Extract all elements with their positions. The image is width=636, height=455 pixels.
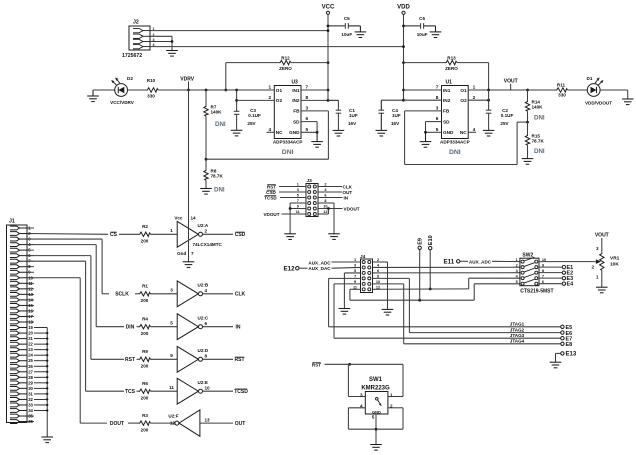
resistor R8 78.7K [205, 159, 207, 169]
svg-text:E8: E8 [566, 342, 573, 348]
svg-text:U2:C: U2:C [198, 316, 209, 321]
junction O1-C2 [487, 89, 490, 92]
svg-text:7: 7 [306, 85, 309, 90]
wire TCS to R6 [137, 390, 139, 392]
svg-text:4: 4 [205, 288, 208, 293]
svg-text:19: 19 [28, 325, 33, 330]
svg-text:4: 4 [268, 127, 271, 132]
svg-text:1: 1 [390, 392, 393, 397]
svg-text:23: 23 [28, 347, 33, 352]
wire U2B out [203, 293, 234, 295]
junction U3 SD-GND [316, 131, 319, 134]
svg-text:JTAG4: JTAG4 [510, 339, 525, 344]
svg-text:16V: 16V [348, 121, 357, 126]
testpoint E2 [562, 271, 565, 274]
wire J3 pin5 [280, 197, 306, 199]
wire U3 O2 [237, 99, 275, 101]
svg-text:31: 31 [28, 391, 33, 396]
resistor R12 ZERO [226, 62, 279, 64]
wire AUX_ADC to SW2 pin1 [492, 260, 520, 262]
junction O2-C2 [487, 99, 490, 102]
svg-text:2: 2 [591, 265, 594, 270]
svg-text:TCSD: TCSD [234, 389, 248, 395]
svg-text:0.1UF: 0.1UF [248, 113, 261, 118]
switch SW2 CTS219-5MST [520, 258, 539, 286]
svg-text:74LCX14MTC: 74LCX14MTC [193, 242, 223, 247]
capacitor C5 10uF [328, 25, 345, 27]
wire U3 GND pin [301, 131, 317, 133]
wire R6 to U2E [151, 390, 178, 392]
svg-text:AUX_DAC: AUX_DAC [308, 266, 331, 271]
svg-text:1725672: 1725672 [122, 53, 142, 59]
wire J4 pin5 to ground [344, 272, 360, 274]
resistor R10 330 [128, 89, 147, 91]
wire J3 pin9 to ground [290, 208, 306, 210]
svg-text:10: 10 [205, 386, 211, 391]
ground VR1 [596, 286, 608, 288]
svg-text:1: 1 [596, 274, 599, 279]
wire U3 IN1 [301, 89, 328, 91]
svg-text:5: 5 [436, 127, 439, 132]
svg-text:7: 7 [436, 85, 439, 90]
junction J2 pins 2-3 [171, 40, 174, 43]
wire VDD vertical [403, 14, 405, 100]
svg-text:2: 2 [473, 95, 476, 100]
svg-text:VOUT: VOUT [595, 233, 609, 239]
wire U2C out [203, 326, 234, 328]
svg-text:0.1UF: 0.1UF [501, 113, 514, 118]
svg-text:R9: R9 [142, 349, 148, 354]
ground J4 pin2 [382, 308, 394, 310]
svg-text:VDD: VDD [397, 5, 410, 11]
svg-text:AUX_ADC: AUX_ADC [308, 260, 331, 265]
junction SW1 top [348, 363, 351, 366]
wire U1 GND pin [426, 131, 442, 133]
svg-text:2: 2 [516, 264, 518, 268]
svg-text:10K: 10K [610, 262, 619, 268]
junction E10 [429, 288, 432, 291]
wire J1 pin3 SCLK [27, 238, 102, 240]
svg-text:4: 4 [473, 127, 476, 132]
svg-text:R1: R1 [142, 284, 148, 289]
wire J1 pin2 CS [27, 233, 108, 236]
svg-text:330: 330 [558, 92, 566, 97]
svg-text:DNI: DNI [449, 149, 461, 156]
wire SW1 bottom loop [348, 407, 365, 409]
ground J1 [41, 436, 53, 438]
wire R2 to U2A [151, 233, 178, 235]
svg-text:E12: E12 [284, 266, 296, 273]
LED D1 VDD/VDOUT [587, 84, 600, 97]
svg-text:GND: GND [372, 409, 381, 414]
junction J3 pin7-pin9 [289, 207, 292, 210]
svg-text:DIN: DIN [126, 325, 135, 331]
svg-text:E11: E11 [444, 259, 455, 266]
wire DIN to R4 [137, 326, 139, 328]
svg-text:12: 12 [170, 421, 176, 426]
svg-text:CTS219-5MST: CTS219-5MST [520, 288, 553, 294]
wire R3 to U2F [151, 422, 175, 424]
svg-text:U1: U1 [446, 80, 453, 86]
svg-text:14: 14 [191, 216, 197, 221]
svg-text:VDRV: VDRV [180, 76, 194, 82]
wire J4 pin12 E10 SW2pin4 [373, 288, 469, 290]
svg-text:SCLK: SCLK [115, 292, 129, 298]
resistor R6 200 [139, 389, 151, 393]
testpoint E1 [562, 265, 565, 268]
svg-text:Gnd: Gnd [177, 251, 186, 256]
svg-text:1: 1 [170, 228, 173, 233]
svg-text:CSD: CSD [235, 232, 246, 238]
wire J3 pin3 [279, 191, 306, 193]
testpoint E3 [562, 276, 565, 279]
wire J4 pin1 AUX_ADC [332, 261, 361, 263]
resistor R14 140K [527, 90, 529, 100]
inverter U2A 74LCX14MTC [177, 221, 198, 247]
junction VCC-R12 [327, 61, 330, 64]
svg-text:ZERO: ZERO [279, 66, 292, 71]
svg-text:U2:E: U2:E [198, 380, 208, 385]
regulator U3 ADP3334ACP [274, 86, 301, 139]
junction VDD-C6 [402, 25, 405, 28]
svg-text:O2: O2 [460, 98, 467, 103]
svg-text:200: 200 [141, 239, 149, 244]
wire J3 pin10 VDOUT [318, 208, 343, 210]
svg-text:2: 2 [205, 229, 208, 234]
wire J3 pin7 [290, 202, 306, 204]
ground R15 [522, 158, 534, 160]
junction IN2-VCC [327, 99, 330, 102]
svg-text:U2:D: U2:D [198, 348, 209, 353]
svg-text:5: 5 [306, 127, 309, 132]
wire U3 FB loop [301, 110, 328, 112]
connector J3 [306, 184, 318, 217]
wire R13 right drop [488, 63, 490, 90]
svg-text:U2:A: U2:A [198, 223, 209, 228]
wire J1 pin7 TCS [27, 260, 86, 262]
wire SW2 pin10 to VR1 [539, 261, 596, 263]
resistor R9 200 [139, 357, 151, 361]
junction E9 [418, 299, 421, 302]
svg-text:U2:B: U2:B [198, 283, 209, 288]
svg-text:J4: J4 [360, 254, 366, 260]
wire J4 pin2 to ground [373, 261, 388, 263]
svg-text:10uF: 10uF [417, 32, 428, 37]
ground C3 [231, 129, 243, 131]
connector J4 [361, 259, 373, 293]
svg-text:DNI: DNI [282, 149, 294, 156]
svg-text:2: 2 [268, 95, 271, 100]
ground C5 [359, 26, 361, 32]
wire J2 pin1 to VCC rail [150, 30, 328, 32]
svg-text:6: 6 [205, 321, 208, 326]
potentiometer VR1 10K [600, 253, 604, 271]
wire J2 pin3 [150, 41, 172, 43]
svg-text:R2: R2 [142, 224, 148, 229]
svg-text:RST: RST [235, 357, 245, 363]
capacitor C3 0.1UF 25V [236, 90, 238, 111]
wire SW1 top loop [348, 363, 403, 365]
wire SW2 pin6 E4 [539, 283, 562, 285]
wire J3 pin8 to ground [318, 202, 334, 204]
svg-text:SW2: SW2 [522, 252, 533, 258]
wire J4 pin7 JTAG1 [329, 277, 361, 279]
svg-text:3: 3 [436, 106, 439, 111]
svg-text:1UF: 1UF [392, 113, 401, 118]
svg-text:O2: O2 [276, 98, 283, 103]
wire SW2 pin9 E1 [539, 266, 562, 268]
inverter U2B [177, 281, 198, 307]
svg-text:IN1: IN1 [292, 88, 300, 93]
wire U1 O1 to VOUT rail [468, 89, 555, 91]
svg-text:200: 200 [141, 331, 149, 336]
wire R9 to U2D [151, 358, 178, 360]
svg-text:DNI: DNI [534, 148, 545, 155]
connector J1 [7, 225, 28, 423]
wire J1 pin6 RST [27, 255, 91, 257]
svg-text:FB: FB [293, 109, 300, 114]
svg-text:C6: C6 [419, 16, 425, 21]
resistor R15 78.7K [527, 122, 529, 134]
svg-text:OUT: OUT [235, 421, 246, 427]
ground E13 [550, 361, 562, 363]
testpoint E8 [561, 342, 564, 345]
wire U1 SD [426, 121, 442, 123]
ground J2 [166, 50, 178, 52]
wire ground to D2 [93, 89, 115, 91]
svg-text:KMR223G: KMR223G [361, 386, 390, 392]
LED D2 VCC/VDRV [115, 84, 128, 97]
wire J2 pin4 to VDD rail [150, 46, 404, 48]
svg-text:U2:F: U2:F [168, 414, 178, 419]
svg-text:25V: 25V [247, 121, 256, 126]
wire U2E out [203, 390, 234, 392]
svg-text:U3: U3 [291, 80, 298, 86]
wire J1 pin4 DIN [27, 244, 96, 246]
ground U2A [183, 261, 195, 263]
svg-text:ADP3334ACP: ADP3334ACP [440, 140, 470, 145]
svg-text:E10: E10 [428, 235, 434, 245]
svg-text:CLK: CLK [235, 292, 246, 298]
ground C1 [333, 129, 345, 131]
svg-text:1UF: 1UF [349, 113, 358, 118]
svg-text:24: 24 [28, 353, 33, 358]
svg-text:16V: 16V [391, 121, 400, 126]
wire J3 pin11 [282, 213, 307, 215]
ground D1 [622, 98, 634, 100]
wire D1 to ground [600, 89, 628, 91]
ground J3 pin8 [328, 233, 340, 235]
capacitor C4 1UF 16V [381, 99, 403, 101]
svg-text:25V: 25V [500, 121, 509, 126]
svg-text:C5: C5 [344, 16, 350, 21]
svg-text:OUT: OUT [343, 190, 353, 195]
svg-text:Vcc: Vcc [174, 216, 183, 221]
testpoint E13 [561, 352, 564, 355]
svg-text:R13: R13 [447, 55, 456, 60]
junction VDD-J2 [402, 45, 405, 48]
wire J3 pin12 [318, 213, 328, 215]
resistor R13 ZERO [404, 62, 446, 64]
svg-text:DNI: DNI [534, 115, 545, 122]
svg-text:JTAG3: JTAG3 [510, 333, 525, 338]
svg-text:R4: R4 [142, 316, 148, 321]
junction VCC-C5 [327, 25, 330, 28]
stub U1 NC [468, 131, 476, 133]
connector J2 [129, 26, 150, 50]
svg-text:1: 1 [473, 85, 476, 90]
wire SCLK to R1 [135, 293, 139, 295]
wire J3 pin4 OUT [318, 191, 342, 193]
junction VCC-IN1 [327, 89, 330, 92]
wire RST to SW1 [325, 363, 350, 365]
svg-text:DNI: DNI [214, 187, 225, 194]
svg-text:JTAG2: JTAG2 [510, 327, 525, 332]
svg-text:6: 6 [436, 116, 439, 121]
ground C2 [483, 129, 495, 131]
svg-text:VDD/VDOUT: VDD/VDOUT [585, 101, 612, 106]
svg-text:25: 25 [28, 358, 33, 363]
wire J3 pin6 IN [318, 197, 343, 199]
wire DOUT to R3 [128, 422, 139, 424]
svg-text:200: 200 [141, 298, 149, 303]
svg-text:NC: NC [276, 130, 283, 135]
svg-text:7: 7 [191, 251, 194, 256]
svg-text:11: 11 [169, 385, 174, 390]
svg-text:VCC/VDRV: VCC/VDRV [110, 100, 135, 105]
ground VCC/VDRV rail [92, 90, 94, 96]
wire CS to R2 [119, 233, 139, 235]
wire SW2 pin7 E3 [539, 277, 562, 279]
svg-text:SW1: SW1 [369, 377, 383, 383]
wire U3 SD [301, 121, 317, 123]
ground R8 [200, 188, 212, 190]
wire R12 left drop [225, 63, 227, 90]
svg-text:E13: E13 [566, 352, 577, 358]
svg-text:ADP3334ACP: ADP3334ACP [273, 140, 303, 145]
capacitor C6 10uF [404, 25, 421, 27]
svg-text:VDOUT: VDOUT [344, 206, 360, 211]
svg-text:O1: O1 [460, 88, 467, 93]
resistor R2 200 [139, 232, 151, 236]
wire VCC vertical [327, 14, 329, 100]
junction R12-VDRV rail [224, 89, 227, 92]
svg-text:IN: IN [344, 195, 349, 200]
svg-text:5: 5 [170, 321, 173, 326]
inverter U2E [177, 378, 198, 404]
svg-text:9: 9 [170, 353, 173, 358]
svg-text:D1: D1 [587, 76, 593, 81]
resistor R11 330 [556, 88, 568, 92]
testpoint E6 [561, 331, 564, 334]
junction R7-R8-FB [205, 158, 208, 161]
wire J3 pin1 [279, 186, 306, 188]
inverter U2F [175, 421, 179, 425]
svg-text:TCS: TCS [125, 389, 136, 395]
capacitor C2 0.1UF 25V [488, 90, 490, 110]
svg-text:28: 28 [28, 375, 33, 380]
junction VOUT-R14 [526, 89, 529, 92]
capacitor C1 1UF 16V [328, 99, 338, 101]
wire J4 pin10 JTAG4 [373, 283, 404, 285]
svg-text:SD: SD [443, 119, 450, 124]
junction IN2-VDD [402, 99, 405, 102]
svg-text:3: 3 [596, 246, 599, 251]
svg-text:22: 22 [28, 342, 33, 347]
wire VR1 bottom [601, 270, 603, 287]
svg-text:CLK: CLK [343, 184, 353, 189]
svg-text:DNI: DNI [215, 121, 226, 128]
svg-text:ZERO: ZERO [445, 66, 458, 71]
wire U2D out [203, 358, 234, 360]
wire J1 pin10 DOUT [27, 277, 80, 279]
junction VCC-J2 [327, 29, 330, 32]
ground U3 [316, 132, 318, 141]
wire SW1 to ground [375, 429, 377, 444]
svg-text:34: 34 [28, 408, 33, 413]
svg-text:R3: R3 [142, 413, 148, 418]
svg-text:JTAG1: JTAG1 [510, 322, 525, 327]
svg-text:8: 8 [436, 95, 439, 100]
wire U1 IN1 [404, 89, 442, 91]
svg-text:140K: 140K [532, 104, 544, 109]
resistor R7 140K [205, 90, 207, 105]
svg-text:78.7K: 78.7K [211, 173, 224, 178]
wire J4 pin9 JTAG3 [334, 283, 361, 285]
wire E12 to AUX_DAC [299, 267, 308, 269]
svg-text:33: 33 [28, 402, 33, 407]
wire SW2 pin8 E2 [539, 272, 562, 274]
junction rail-C3 [235, 89, 238, 92]
svg-text:RST: RST [125, 357, 135, 363]
ground J4 pin5 [339, 308, 351, 310]
wire J4 pin11 E9 SW2pin5 [350, 288, 361, 290]
svg-text:20: 20 [28, 331, 33, 336]
regulator U1 ADP3334ACP [442, 86, 469, 139]
svg-text:32: 32 [28, 397, 33, 402]
svg-text:330: 330 [147, 94, 155, 99]
wire J4 pin8 JTAG2 [373, 277, 410, 279]
ground C4 [376, 129, 388, 131]
junction R14-R15-FB [526, 121, 529, 124]
wire J3 pin2 CLK [318, 186, 342, 188]
wire R4 to U2C [151, 326, 178, 328]
svg-text:R10: R10 [147, 78, 156, 83]
svg-text:R6: R6 [142, 381, 148, 386]
resistor R1 200 [139, 292, 151, 296]
wire J4 pin6 to SW2 pin3 [373, 272, 520, 274]
junction VDD-R13 [402, 61, 405, 64]
junction VDRV [187, 89, 190, 92]
ground J3 pin9 [284, 233, 296, 235]
svg-text:IN1: IN1 [443, 88, 451, 93]
wire E11 to AUX_ADC [460, 260, 468, 262]
resistor R3 200 [139, 421, 151, 425]
svg-text:IN2: IN2 [292, 98, 300, 103]
ground U1 [425, 132, 427, 141]
svg-text:10uF: 10uF [341, 32, 352, 37]
wire U2F out [200, 422, 233, 424]
wire RST to R9 [137, 358, 139, 360]
junction J3 pin10-pin12 [327, 207, 330, 210]
svg-text:SD: SD [293, 119, 300, 124]
svg-text:VCC: VCC [322, 5, 335, 11]
junction U1 SD-GND [424, 131, 427, 134]
wire U3 IN2 [301, 99, 338, 101]
wire J2 pin2 to ground [150, 35, 172, 37]
inverter U2C [177, 314, 198, 340]
testpoint E4 [562, 282, 565, 285]
